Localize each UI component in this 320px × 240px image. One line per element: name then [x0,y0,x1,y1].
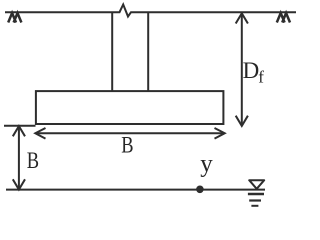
B width dimension arrow (horizontal, double-headed) [35,128,224,139]
column left edge [111,12,113,92]
svg-text:y: y [200,150,213,177]
svg-text:B: B [27,148,39,173]
footing-bottom extension line (left) [4,125,36,127]
water table dash 1 [248,193,264,195]
water table dash 3 [251,205,258,207]
Df depth-of-foundation dimension arrow (vertical, double-headed) [236,13,248,126]
column right edge [147,12,149,92]
water table symbol (inverted triangle) [249,180,264,189]
right ground hatch [277,13,290,23]
svg-text:f: f [258,67,264,86]
svg-text:D: D [243,58,260,83]
water table line [6,189,265,191]
ground surface line with break symbol [5,5,296,17]
footing outline [36,91,224,124]
svg-text:B: B [121,132,133,157]
water table dash 2 [249,199,261,201]
point marker dot on water table line [196,186,204,194]
B depth dimension arrow (vertical, double-headed, left) [13,126,25,189]
left ground hatch [8,13,21,23]
